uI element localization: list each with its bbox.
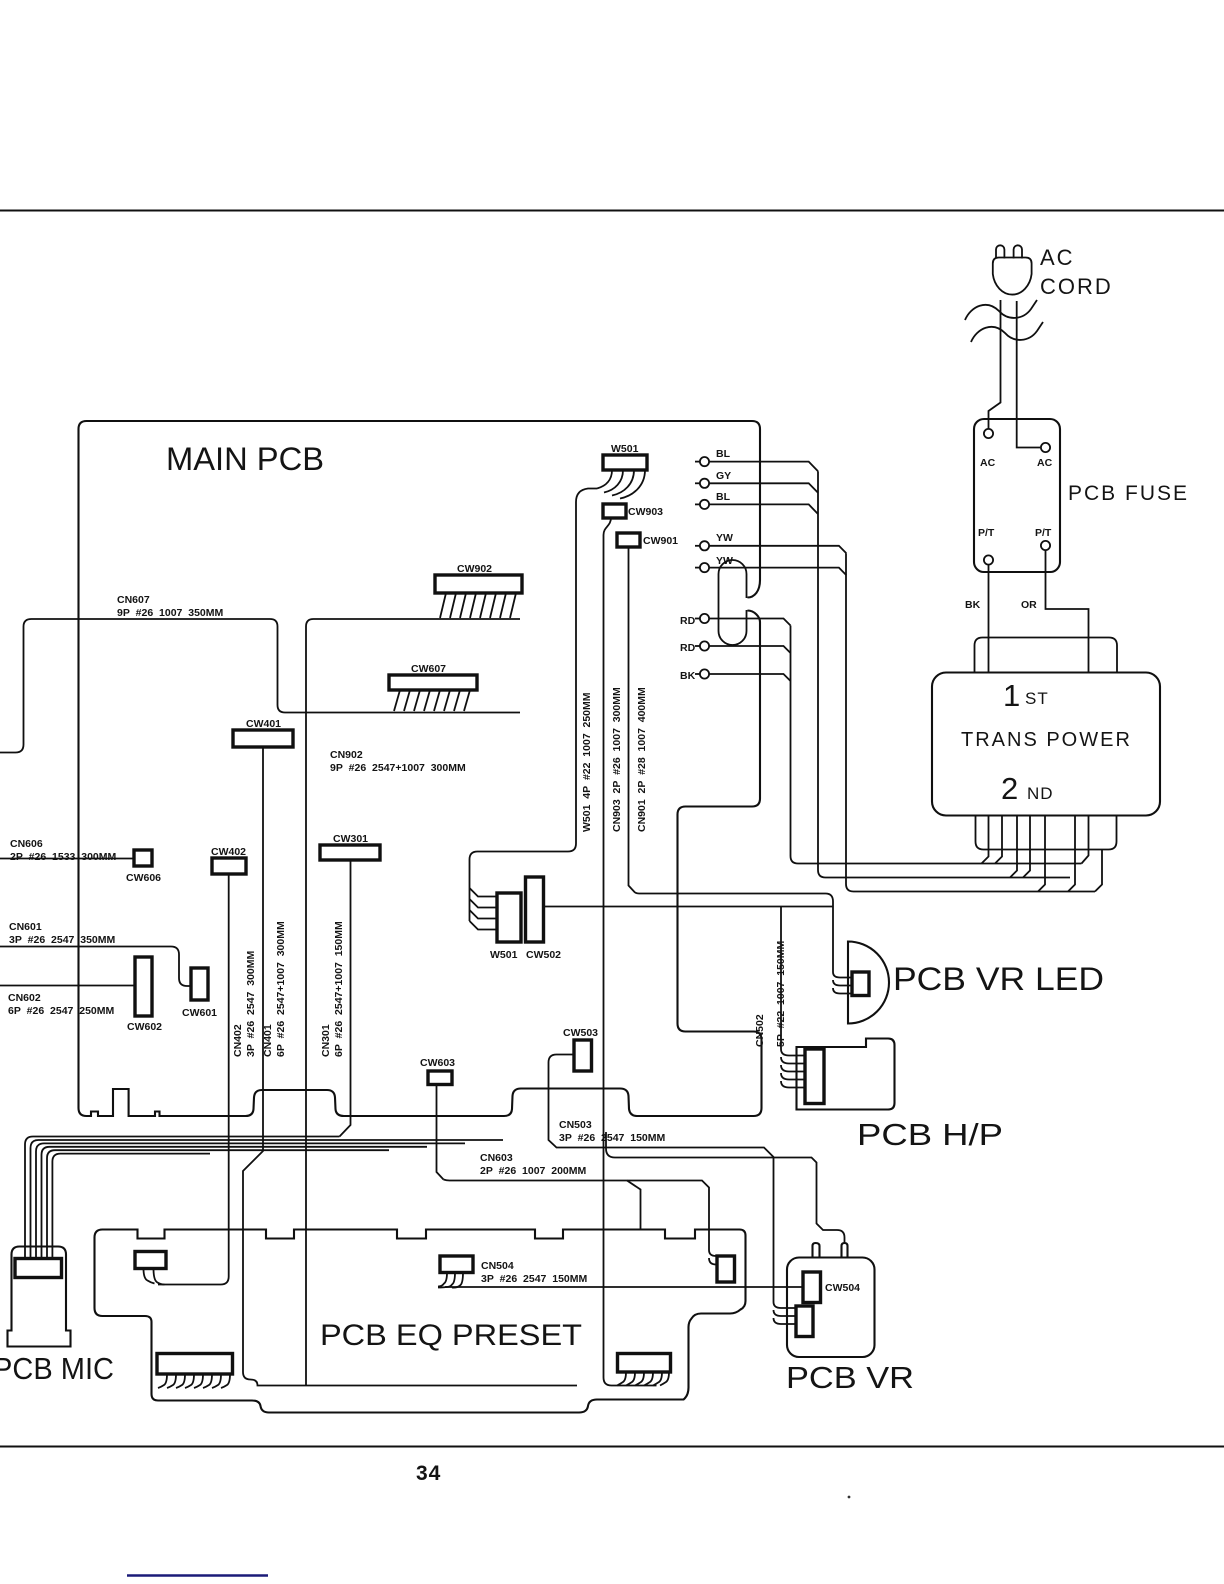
terminal BL1 — [695, 457, 709, 466]
CN502 fan to H/P connector — [781, 1049, 805, 1088]
wire CN607 run — [0, 619, 520, 753]
H/P connector — [805, 1049, 824, 1104]
wire CN502 bundle down to headphone — [780, 907, 782, 1050]
connector CW503 — [574, 1040, 592, 1071]
wire CN903 from CW903 down — [604, 518, 657, 1386]
wire CN603 to EQ 2P connector — [444, 1180, 710, 1251]
terminal BL2 — [695, 500, 709, 509]
svg-text:CW502: CW502 — [526, 949, 561, 961]
connector CW903 — [603, 504, 626, 518]
MIC cable wire 3 — [36, 1143, 465, 1258]
fuse terminal P/T left — [984, 555, 993, 564]
wire loop under trans bottom — [976, 816, 1117, 850]
cord squiggle upper — [965, 300, 1037, 320]
AC cord right conductor — [1017, 301, 1040, 448]
svg-text:BK: BK — [680, 670, 696, 682]
AC plug prong 1 — [996, 245, 1004, 258]
svg-text:6P #26 2547 250MM: 6P #26 2547 250MM — [8, 1005, 114, 1017]
capsule loop bottom arc — [719, 631, 747, 645]
svg-text:CN902: CN902 — [330, 749, 363, 761]
connector CW606 — [134, 850, 152, 866]
svg-text:3P #26 2547 150MM: 3P #26 2547 150MM — [559, 1132, 665, 1144]
svg-text:CN504: CN504 — [481, 1260, 514, 1272]
wire W501 bundle long run — [470, 489, 598, 922]
MIC cable wire 5 — [47, 1150, 389, 1258]
CW902 comb teeth — [440, 593, 516, 618]
svg-text:2P #26 1007 200MM: 2P #26 1007 200MM — [480, 1165, 586, 1177]
W501 pig-tail wires — [597, 470, 645, 499]
PCB H/P board outline — [797, 1039, 895, 1110]
connector CW603 — [428, 1071, 452, 1085]
svg-text:CN502: CN502 — [754, 1014, 766, 1047]
PCB FUSE box — [974, 419, 1060, 572]
connector CW504 — [803, 1272, 821, 1303]
svg-text:CW601: CW601 — [182, 1007, 217, 1019]
svg-text:CW402: CW402 — [211, 846, 246, 858]
wire YW1 — [709, 546, 846, 554]
svg-text:CN603: CN603 — [480, 1152, 513, 1164]
wire RD1 through hole — [709, 619, 791, 626]
wire BL1 to bundle — [709, 462, 818, 472]
capsule loop upper arc — [719, 560, 747, 574]
svg-text:GY: GY — [716, 470, 731, 482]
wire CN601 — [0, 947, 191, 987]
VR lower connector — [796, 1306, 813, 1337]
connector CW402 — [212, 858, 246, 874]
wire from CW603 into CN603 run — [437, 1085, 444, 1180]
fuse terminal AC left — [984, 429, 993, 438]
svg-text:YW: YW — [716, 532, 733, 544]
svg-text:ND: ND — [1027, 784, 1054, 803]
svg-text:CW603: CW603 — [420, 1057, 455, 1069]
wire CN402 from CW402 down to EQ connector — [158, 874, 229, 1285]
wire branch to PCB VR stub — [606, 1132, 845, 1243]
LED fan wires — [833, 972, 852, 994]
MIC cable wire 4 — [42, 1147, 428, 1259]
svg-text:PCB FUSE: PCB FUSE — [1068, 482, 1189, 505]
wire stub down to EQ board edge — [627, 1181, 641, 1230]
wire CN504 to CW504 — [438, 1286, 803, 1289]
svg-text:OR: OR — [1021, 599, 1037, 611]
svg-text:CN903 2P #26 1007 300MM: CN903 2P #26 1007 300MM — [611, 687, 623, 832]
wire loop over trans top — [975, 638, 1118, 673]
svg-text:RD: RD — [680, 642, 696, 654]
svg-text:RD: RD — [680, 615, 696, 627]
svg-text:9P #26 2547+1007 300MM: 9P #26 2547+1007 300MM — [330, 762, 466, 774]
terminal RD1 — [695, 614, 709, 623]
wire YW bundle vertical to bus3 — [846, 553, 1095, 891]
MIC cable wire 1 — [25, 1137, 340, 1259]
top rule line — [0, 209, 1224, 211]
wire RD2 to bundle — [709, 646, 791, 653]
MIC cable wire 6 — [52, 1154, 210, 1259]
wire CN602 — [0, 985, 135, 987]
wire CN606 — [0, 858, 134, 860]
wire YW2 — [709, 568, 846, 576]
terminal RD2 — [695, 641, 709, 650]
cord squiggle lower — [971, 322, 1043, 342]
W501 bundle fan to lower connector — [470, 888, 498, 930]
svg-text:BL: BL — [716, 491, 731, 503]
bottom rule line — [0, 1445, 1224, 1447]
connector W501 bottom — [497, 893, 521, 942]
EQ bottom-right connector — [618, 1354, 671, 1373]
svg-text:PCB VR: PCB VR — [786, 1360, 914, 1395]
EQ bottom-left connector — [157, 1354, 233, 1375]
svg-text:TRANS POWER: TRANS POWER — [961, 729, 1132, 751]
connector CW902 — [435, 575, 522, 593]
svg-text:PCB VR LED: PCB VR LED — [893, 961, 1104, 997]
AC plug prong 2 — [1014, 245, 1022, 258]
PCB MIC housing — [8, 1247, 71, 1347]
svg-text:CW401: CW401 — [246, 718, 281, 730]
svg-text:3P #26 2547 300MM: 3P #26 2547 300MM — [245, 951, 257, 1057]
wire CW502 to LED junction — [544, 906, 834, 908]
svg-text:CN601: CN601 — [9, 921, 42, 933]
svg-text:3P #26 2547 350MM: 3P #26 2547 350MM — [9, 934, 115, 946]
svg-text:PCB MIC: PCB MIC — [0, 1351, 114, 1386]
connector CW301 — [320, 845, 380, 860]
trans pin wire v1002 below — [995, 816, 1002, 864]
svg-text:CW903: CW903 — [628, 506, 663, 518]
svg-text:AC: AC — [1037, 457, 1053, 469]
trans pin wire v1102 below — [1095, 850, 1102, 892]
svg-text:CN607: CN607 — [117, 594, 150, 606]
wire CW902 bundle down — [306, 619, 520, 1385]
trans pin wire v1017 below — [1010, 816, 1017, 878]
svg-text:P/T: P/T — [1035, 527, 1052, 539]
connector W501 top — [603, 455, 647, 470]
svg-text:5P #22 1007 150MM: 5P #22 1007 150MM — [775, 941, 787, 1047]
svg-text:W501 4P #22 1007 250MM: W501 4P #22 1007 250MM — [581, 692, 593, 832]
svg-text:34: 34 — [416, 1462, 441, 1485]
svg-text:2P #26 1533 300MM: 2P #26 1533 300MM — [10, 851, 116, 863]
CN603 fan to 2P connector — [709, 1250, 717, 1265]
wire CN901 from CW901 down to LED — [629, 547, 834, 972]
wire BK fuse to trans — [988, 565, 990, 673]
svg-text:CW503: CW503 — [563, 1027, 598, 1039]
svg-text:CN401: CN401 — [262, 1024, 274, 1057]
terminal YW2 — [695, 563, 709, 572]
svg-text:CW602: CW602 — [127, 1021, 162, 1033]
wire bundle RD/RD/BK vertical to bus1 — [791, 626, 1082, 864]
svg-text:BL: BL — [716, 448, 731, 460]
svg-text:CW504: CW504 — [825, 1282, 860, 1294]
capsule loop right upper segment — [746, 574, 748, 598]
svg-text:CW901: CW901 — [643, 535, 678, 547]
connector CW601 — [191, 968, 208, 1000]
svg-text:CORD: CORD — [1040, 274, 1113, 299]
PCB VR right stub — [842, 1243, 848, 1258]
AC cord left conductor — [989, 300, 1001, 429]
svg-text:W501: W501 — [490, 949, 518, 961]
wire GY to bundle — [709, 483, 818, 493]
svg-text:6P #26 2547+1007 300MM: 6P #26 2547+1007 300MM — [275, 921, 287, 1057]
svg-text:CW607: CW607 — [411, 663, 446, 675]
svg-text:ST: ST — [1025, 689, 1049, 708]
LED connector — [852, 972, 869, 996]
trans pin wire v989 below — [982, 816, 989, 864]
EQ bottom-right comb teeth — [617, 1372, 669, 1386]
EQ 2P connector right — [717, 1256, 735, 1282]
svg-text:1: 1 — [1003, 678, 1020, 713]
stray dot — [848, 1496, 851, 1499]
fuse terminal AC right — [1041, 443, 1050, 452]
connector CN504 — [440, 1256, 473, 1273]
svg-text:MAIN PCB: MAIN PCB — [166, 441, 324, 477]
svg-text:CW301: CW301 — [333, 833, 368, 845]
capsule loop left side — [718, 574, 720, 631]
fuse terminal P/T right — [1041, 541, 1050, 550]
PCB VR LED board outline — [848, 941, 889, 1023]
connector CW502 — [526, 877, 544, 942]
trans pin wire v1030 below — [1023, 816, 1030, 878]
connector CW401 — [233, 730, 293, 747]
wire BK2 to bundle — [709, 674, 791, 681]
svg-text:CN606: CN606 — [10, 838, 43, 850]
svg-text:PCB EQ PRESET: PCB EQ PRESET — [320, 1319, 582, 1352]
PCB EQ PRESET board outline — [95, 1230, 746, 1413]
terminal YW1 — [695, 541, 709, 550]
svg-text:CN901 2P #28 1007 400MM: CN901 2P #28 1007 400MM — [636, 687, 648, 832]
connector CW607 — [389, 675, 477, 690]
CW607 comb teeth — [394, 690, 470, 711]
MAIN PCB board outline with edge hole and notched bottom — [79, 421, 762, 1116]
CN503 fan to VR lower connector — [774, 1302, 797, 1324]
PCB VR board outline — [787, 1258, 875, 1358]
wire CN401 from CW401 down — [243, 747, 577, 1386]
svg-text:BK: BK — [965, 599, 981, 611]
svg-text:3P #26 2547 150MM: 3P #26 2547 150MM — [481, 1273, 587, 1285]
EQ 2P connector left — [135, 1252, 166, 1269]
MIC cable wire 2 — [31, 1140, 504, 1259]
connector CW602 — [135, 957, 152, 1016]
connector CW901 — [617, 533, 640, 547]
svg-text:CN503: CN503 — [559, 1119, 592, 1131]
svg-text:9P #26 1007 350MM: 9P #26 1007 350MM — [117, 607, 223, 619]
trans pin wire v1045 below — [1038, 816, 1045, 892]
svg-text:AC: AC — [980, 457, 996, 469]
AC plug body — [993, 258, 1032, 295]
wire BL2 to bundle — [709, 504, 818, 514]
svg-text:6P #26 2547+1007 150MM: 6P #26 2547+1007 150MM — [333, 921, 345, 1057]
svg-text:2: 2 — [1001, 771, 1018, 806]
svg-text:CN301: CN301 — [320, 1024, 332, 1057]
TRANS POWER box — [932, 673, 1160, 816]
PCB MIC connector — [15, 1259, 62, 1278]
wire bundle BL/GY/BL vertical to bus2 — [818, 471, 1070, 877]
svg-text:AC: AC — [1040, 245, 1075, 270]
EQ left connector pin wires — [144, 1269, 165, 1285]
wire OR fuse to trans — [1046, 551, 1089, 673]
bottom-left black bar — [127, 1574, 268, 1576]
PCB VR left stub — [813, 1243, 820, 1258]
wire CN301 from CW301 down to MIC bundle — [340, 860, 351, 1137]
board edge hook into hole — [748, 580, 761, 598]
svg-text:W501: W501 — [611, 443, 639, 455]
svg-text:P/T: P/T — [978, 527, 995, 539]
EQ bottom-left comb teeth — [158, 1374, 230, 1388]
svg-text:CN402: CN402 — [232, 1024, 244, 1057]
trans pin wire v1075 below — [1068, 816, 1075, 892]
terminal BK2 — [695, 669, 709, 678]
svg-text:CW902: CW902 — [457, 563, 492, 575]
svg-text:CN602: CN602 — [8, 992, 41, 1004]
trans pin wire v1089 below — [1082, 816, 1089, 864]
svg-text:PCB H/P: PCB H/P — [857, 1117, 1003, 1152]
svg-text:CW606: CW606 — [126, 872, 161, 884]
CN504 pin fan wires — [438, 1273, 463, 1288]
capsule loop right lower segment — [746, 610, 748, 631]
wire CN503 from CW503 to PCB VR — [549, 1055, 774, 1303]
terminal GY — [695, 479, 709, 488]
